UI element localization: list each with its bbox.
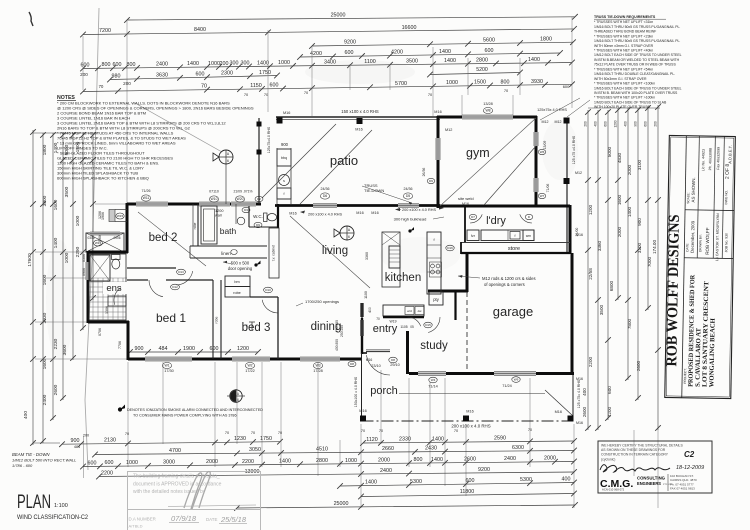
svg-text:70: 70 (225, 431, 229, 435)
faint diagonal pencil line through notes (135, 103, 222, 152)
bed3 bm robe boxes (225, 276, 250, 287)
svg-text:200 x100 x 4.0 RHS: 200 x100 x 4.0 RHS (402, 208, 436, 212)
svg-text:2200: 2200 (588, 356, 593, 367)
svg-text:2000: 2000 (544, 456, 556, 462)
wc right wall (277, 204, 279, 228)
svg-text:6: 6 (237, 398, 239, 402)
svg-text:3500: 3500 (64, 186, 70, 197)
svg-text:6: 6 (348, 235, 350, 239)
svg-text:2600: 2600 (582, 406, 587, 417)
top dimension row 7200 8400 16600 (83, 29, 574, 35)
svg-text:W.C.: W.C. (253, 214, 263, 219)
svg-text:22/58: 22/58 (588, 268, 593, 280)
svg-text:ROB WOLFF: ROB WOLFF (705, 227, 710, 255)
svg-text:The building framing details o: The building framing details of this pla… (133, 474, 220, 480)
patio left post line (258, 118, 260, 204)
svg-text:300 high bulkhead: 300 high bulkhead (394, 217, 427, 222)
svg-text:wall: wall (215, 214, 222, 218)
svg-text:M16: M16 (576, 421, 583, 425)
svg-text:70: 70 (201, 84, 207, 90)
ens window box with X (86, 233, 124, 252)
ldry door arcs (470, 214, 482, 223)
bath bed2 divider wall (197, 204, 199, 246)
svg-text:2000: 2000 (627, 164, 632, 175)
svg-text:3500: 3500 (599, 304, 604, 315)
title block divider lines (682, 136, 687, 398)
gym left wall (437, 116, 440, 208)
svg-text:11800: 11800 (460, 489, 474, 495)
svg-text:l'dry: l'dry (486, 215, 506, 227)
porch left edge (361, 353, 363, 421)
svg-text:0906: 0906 (113, 236, 120, 240)
svg-text:robe: robe (215, 316, 219, 323)
svg-text:2600: 2600 (636, 360, 641, 371)
svg-text:M16: M16 (462, 202, 469, 206)
front door oval D8 (389, 357, 397, 363)
kitchen south bench with w/d (383, 305, 424, 316)
svg-text:M16: M16 (555, 410, 562, 414)
svg-text:bed 1: bed 1 (156, 311, 186, 325)
svg-text:70: 70 (454, 429, 458, 433)
svg-text:1800: 1800 (540, 37, 552, 43)
svg-text:A.D.B.E.T.: A.D.B.E.T. (727, 145, 732, 164)
M16 post top patio mid (357, 118, 363, 124)
right dim ticks mid (585, 177, 591, 183)
oval D10 bed3 (264, 287, 273, 293)
gym right wall (535, 116, 538, 207)
svg-text:600: 600 (485, 48, 494, 54)
svg-text:* TRUSSES WITH NET UPLIFT <23k: * TRUSSES WITH NET UPLIFT <23kn (594, 34, 653, 38)
section bubble bottom (230, 390, 242, 402)
patio colonnade right line (566, 120, 568, 253)
bed2 robe strip (192, 204, 194, 246)
patio top beam 150x100 RHS (276, 116, 440, 118)
svg-text:1000: 1000 (75, 215, 81, 226)
wall ens left exterior (87, 251, 90, 323)
bottom dimension row 1b right (363, 441, 574, 443)
svg-text:70: 70 (379, 429, 383, 433)
section bubble left (219, 150, 233, 164)
svg-text:2430: 2430 (425, 446, 437, 452)
svg-text:robe: robe (233, 291, 241, 295)
top extension lines (126, 21, 128, 203)
svg-text:70: 70 (361, 429, 365, 433)
svg-text:70: 70 (251, 431, 255, 435)
svg-text:71/14: 71/14 (428, 385, 438, 389)
svg-text:(cyclonic): (cyclonic) (601, 457, 615, 461)
svg-text:W15: W15 (117, 214, 124, 218)
svg-text:6: 6 (227, 159, 229, 163)
svg-text:bm: bm (234, 280, 239, 284)
svg-text:200: 200 (80, 72, 88, 77)
svg-text:W20: W20 (237, 197, 244, 201)
entry west wall with door band (361, 318, 363, 354)
svg-text:WITH 50x3mm G.I. STRAP OVER: WITH 50x3mm G.I. STRAP OVER (594, 77, 647, 81)
porch diagonal corner (545, 390, 573, 416)
svg-text:4700: 4700 (169, 448, 181, 454)
svg-text:pty: pty (433, 297, 439, 302)
bottom dimension row 1 (62, 442, 280, 445)
svg-text:70: 70 (376, 317, 380, 321)
svg-text:1200: 1200 (588, 204, 593, 215)
entry south front door band (366, 351, 390, 353)
ldry top wall from gym to colonnade (537, 205, 570, 208)
svg-text:600: 600 (113, 62, 122, 68)
svg-text:8400: 8400 (194, 27, 206, 33)
svg-text:DWG NO.: DWG NO. (724, 190, 728, 205)
top dimension row 9200 5600 1800 (312, 42, 573, 46)
porch slab dash-dot line (362, 420, 574, 422)
top dimension row 4200 600 4200 1400 (300, 53, 560, 57)
oval D5 patio door (403, 193, 412, 199)
svg-text:t.v. cabinet: t.v. cabinet (272, 245, 276, 261)
svg-text:with the detailed notes issued: with the detailed notes issued by (133, 489, 206, 495)
svg-text:1/M16 BOLT THRU 50x5 GS TRUSS: 1/M16 BOLT THRU 50x5 GS TRUSS PL/GANGNAI… (594, 39, 680, 43)
wall bed1 left exterior (127, 321, 130, 360)
svg-text:25000: 25000 (331, 12, 346, 18)
svg-text:3360: 3360 (365, 252, 369, 260)
porch door swing arc (366, 355, 390, 375)
approval stamp gray box (128, 472, 261, 530)
svg-text:CONSULTING: CONSULTING (637, 476, 665, 481)
svg-text:THREADED THRU BOND BEAM REINF: THREADED THRU BOND BEAM REINF (594, 30, 656, 34)
svg-text:600: 600 (196, 71, 205, 77)
svg-text:9200: 9200 (478, 467, 490, 473)
svg-text:0306: 0306 (82, 254, 86, 262)
bottom dimension row 3 (83, 462, 574, 467)
svg-text:DATE: DATE (685, 243, 689, 251)
svg-text:484: 484 (74, 445, 80, 449)
wall bottom bedrooms exterior (128, 358, 361, 361)
svg-text:PLAN: PLAN (17, 491, 51, 513)
bottom extension lines (127, 362, 129, 467)
oval D13 bed2 door (177, 269, 186, 275)
svg-text:DENOTES IONIZATION SMOKE ALARM: DENOTES IONIZATION SMOKE ALARM CONNECTED… (127, 408, 263, 412)
svg-text:200 x100 x 4.0 RHS: 200 x100 x 4.0 RHS (451, 424, 490, 429)
svg-text:D7: D7 (471, 215, 475, 219)
scan crease line (85, 8, 99, 470)
svg-text:ROB WOLFF DESIGNS: ROB WOLFF DESIGNS (663, 214, 683, 366)
svg-text:13 CASTOR ST. MOURILYAN: 13 CASTOR ST. MOURILYAN (715, 213, 720, 261)
svg-text:2000: 2000 (206, 459, 218, 465)
window W10 07110 top wall (199, 202, 230, 206)
svg-text:AS SHOWN ON THESE DRAWINGS FOR: AS SHOWN ON THESE DRAWINGS FOR (601, 448, 666, 452)
svg-text:400 800: 400 800 (335, 339, 339, 351)
CMG signature (600, 465, 670, 472)
svg-text:December, 2009: December, 2009 (690, 220, 696, 253)
left dim ticks (30, 201, 36, 207)
svg-text:600: 600 (88, 460, 97, 466)
svg-text:3000: 3000 (163, 460, 175, 466)
M16 post top patio left (277, 118, 283, 124)
svg-text:125x75x 4.0 RHS: 125x75x 4.0 RHS (537, 108, 567, 112)
patio diagonal braces (262, 124, 336, 198)
svg-text:JOB No. 930: JOB No. 930 (724, 233, 728, 253)
svg-text:1000: 1000 (208, 61, 220, 67)
svg-text:porch: porch (370, 385, 398, 397)
svg-text:1600: 1600 (42, 274, 48, 285)
svg-text:17/28: 17/28 (313, 369, 323, 373)
window ens left (86, 262, 90, 280)
svg-text:13/09: 13/09 (543, 141, 547, 150)
svg-text:2800: 2800 (476, 58, 488, 64)
svg-text:FAX 07 4051 9813: FAX 07 4051 9813 (670, 487, 695, 491)
svg-text:1200: 1200 (614, 120, 618, 127)
bed3 top wall (250, 296, 278, 298)
svg-text:7800: 7800 (627, 318, 632, 329)
svg-text:dining: dining (311, 321, 342, 333)
svg-text:1600: 1600 (53, 199, 59, 210)
section bubble mid (340, 226, 354, 240)
right dim connector (588, 107, 660, 109)
svg-text:0906: 0906 (82, 268, 86, 276)
ens toilet (112, 255, 121, 260)
entry north wall (383, 316, 424, 318)
svg-text:bath: bath (220, 226, 237, 236)
svg-text:400: 400 (582, 388, 587, 396)
svg-text:1400: 1400 (187, 61, 199, 67)
svg-text:M12: M12 (555, 120, 562, 124)
svg-text:2800: 2800 (316, 458, 328, 464)
svg-text:W9: W9 (514, 378, 519, 382)
svg-text:M16: M16 (371, 211, 378, 215)
colonnade M12 squares (564, 118, 570, 124)
svg-text:D13: D13 (178, 270, 184, 274)
svg-text:entry: entry (373, 323, 398, 335)
svg-text:M16: M16 (466, 410, 473, 414)
svg-text:1400: 1400 (53, 237, 59, 248)
svg-text:gym: gym (466, 146, 490, 160)
svg-text:1400: 1400 (444, 58, 456, 64)
svg-text:patio: patio (330, 153, 358, 168)
svg-text:200: 200 (654, 121, 658, 127)
svg-text:200 x100 x 4.0 RHS: 200 x100 x 4.0 RHS (308, 213, 342, 217)
svg-text:M16: M16 (366, 358, 373, 362)
svg-text:2400: 2400 (156, 62, 168, 68)
garage left wall upper (466, 253, 469, 292)
svg-text:store: store (508, 246, 520, 252)
gym diagonal brace (484, 146, 536, 205)
svg-text:M16: M16 (355, 128, 362, 132)
ens label (103, 282, 127, 294)
svg-text:AS SHOWN.: AS SHOWN. (691, 177, 696, 202)
oval wc window (255, 196, 263, 201)
smoke alarm symbol living (408, 229, 411, 232)
svg-text:200: 200 (220, 61, 229, 67)
svg-text:1/M16 BOLT THRU 50x5 GS TRUSS: 1/M16 BOLT THRU 50x5 GS TRUSS PL/GANGNAI… (594, 25, 680, 29)
svg-text:robe: robe (193, 222, 197, 229)
svg-text:D9: D9 (429, 179, 433, 183)
linen top wall (190, 245, 267, 247)
svg-text:600: 600 (81, 62, 90, 68)
svg-text:17/22: 17/22 (245, 369, 255, 373)
scan smudges (305, 60, 415, 84)
porch M16 posts (360, 416, 366, 422)
svg-text:5600: 5600 (483, 37, 495, 43)
smoke alarm legend (118, 407, 122, 411)
svg-text:2660: 2660 (382, 446, 394, 452)
svg-text:D9: D9 (256, 223, 260, 227)
bbq circle S (279, 175, 290, 186)
svg-text:W1: W1 (164, 364, 169, 368)
svg-text:D.A NUMBER: D.A NUMBER (129, 517, 156, 522)
svg-text:1200: 1200 (215, 209, 223, 213)
svg-text:C2: C2 (684, 450, 695, 459)
svg-text:17600: 17600 (27, 253, 33, 267)
oval labels on bottom wall (162, 362, 171, 368)
svg-text:2400: 2400 (380, 468, 392, 474)
garage right wall (571, 253, 574, 374)
ens vanity (108, 296, 126, 306)
bed1 door arc (149, 280, 163, 297)
svg-text:2230: 2230 (53, 338, 59, 349)
svg-text:600: 600 (607, 386, 612, 394)
svg-text:1306: 1306 (105, 306, 109, 314)
bed3 door arc (262, 300, 278, 313)
study window W4 71/14 (418, 372, 446, 376)
svg-text:1900: 1900 (183, 346, 195, 352)
svg-text:25/5/18: 25/5/18 (220, 515, 247, 524)
svg-text:0306: 0306 (87, 236, 94, 240)
svg-text:07110: 07110 (209, 190, 219, 194)
svg-text:W3: W3 (315, 364, 320, 368)
fzr box (467, 230, 479, 241)
kitchen island bench (382, 232, 400, 287)
svg-text:17/30: 17/30 (164, 369, 174, 373)
study left wall (406, 331, 409, 374)
svg-text:linen: linen (221, 251, 231, 256)
wall ens top (88, 251, 128, 254)
svg-text:s: s (283, 179, 285, 183)
svg-text:2200: 2200 (101, 470, 113, 476)
svg-text:200: 200 (584, 121, 588, 127)
svg-text:1500: 1500 (474, 80, 486, 86)
ldry right wall (569, 205, 572, 254)
svg-text:* TRUSSES WITH NET UPLIFT <54k: * TRUSSES WITH NET UPLIFT <54kn (594, 67, 653, 71)
svg-text:1120: 1120 (366, 437, 378, 443)
garage left dashed line (466, 292, 468, 372)
hall bed1 top wall (127, 279, 148, 281)
left extension lines to plan (95, 203, 127, 205)
CMG address block (667, 474, 669, 491)
bottom dimension row 4 (99, 472, 574, 477)
svg-text:D16: D16 (447, 246, 453, 250)
porch right edge (572, 375, 574, 421)
svg-text:1400: 1400 (627, 206, 632, 217)
svg-text:M16: M16 (576, 377, 583, 381)
svg-text:2 OF 8: 2 OF 8 (725, 164, 731, 180)
svg-text:* TRUSSES WITH NET UPLIFT >100: * TRUSSES WITH NET UPLIFT >100kn (594, 96, 655, 100)
pen mark top-left corner (29, 12, 33, 26)
svg-text:M16: M16 (289, 212, 296, 216)
garage-study left wall (454, 291, 456, 320)
window 17/22 bottom wall (232, 357, 270, 361)
svg-text:W6: W6 (540, 150, 545, 154)
svg-text:D2: D2 (257, 197, 261, 201)
svg-text:1/M12 BOLT 500 INTO RECT.WALL: 1/M12 BOLT 500 INTO RECT.WALL (12, 458, 76, 463)
oval D6 patio door (320, 193, 329, 199)
ldry bench (481, 230, 534, 241)
bottom dimension row 2 (95, 451, 574, 455)
window box bed2 left wall (109, 210, 115, 222)
bottom dimension row 5 (340, 483, 574, 487)
top dimension row main string (83, 63, 572, 69)
svg-text:70: 70 (528, 428, 532, 432)
svg-text:W4: W4 (431, 378, 436, 382)
oval label entry porch (348, 361, 356, 366)
svg-text:1200: 1200 (237, 346, 249, 352)
svg-text:2400: 2400 (504, 456, 516, 462)
svg-text:2000: 2000 (378, 457, 390, 463)
bottom dimension row 6 (361, 494, 574, 497)
approval stamp bottom row (128, 509, 261, 511)
svg-text:16600: 16600 (402, 25, 417, 31)
svg-text:4510: 4510 (316, 447, 328, 453)
svg-text:WIND CLASSIFICATION-C2: WIND CLASSIFICATION-C2 (17, 515, 89, 521)
store bottom wall (461, 252, 570, 254)
sliding door 24/36 patio left (313, 204, 337, 207)
wc toilet (264, 213, 268, 222)
svg-text:1/M16 BOLT THRU DOUBLE CLEAT/G: 1/M16 BOLT THRU DOUBLE CLEAT/GANGNAIL PL… (594, 72, 675, 76)
oval D16 kitchen corner (446, 245, 454, 251)
svg-text:400: 400 (624, 121, 628, 127)
bed3 right wall (277, 297, 279, 359)
title block outer box (663, 135, 736, 398)
svg-text:* TRUSSES WITH NET UPLIFT <31k: * TRUSSES WITH NET UPLIFT <31kn (594, 20, 653, 24)
svg-text:D5: D5 (406, 194, 410, 198)
svg-text:13900: 13900 (245, 469, 260, 475)
svg-text:600: 600 (466, 478, 475, 484)
pty box (429, 292, 443, 305)
svg-text:1230: 1230 (234, 436, 246, 442)
svg-text:2000: 2000 (617, 226, 622, 237)
svg-text:1906: 1906 (101, 212, 105, 220)
bath basin (237, 217, 245, 225)
svg-text:D8: D8 (350, 362, 354, 366)
svg-text:484: 484 (159, 346, 168, 352)
approval stamp signature (184, 472, 210, 510)
linen divider (189, 246, 191, 258)
svg-text:CONSTRUCTION IN TERRAIN CATEGO: CONSTRUCTION IN TERRAIN CATEGORY (601, 453, 669, 457)
svg-text:26/36: 26/36 (422, 168, 426, 177)
svg-text:1400: 1400 (439, 49, 451, 55)
garage step wall (455, 290, 468, 293)
window 17/28 bottom wall (300, 357, 340, 361)
svg-text:1000: 1000 (446, 80, 458, 86)
svg-text:900: 900 (71, 438, 80, 444)
svg-text:5200: 5200 (476, 67, 488, 73)
svg-text:125x75x4.0 RHS: 125x75x4.0 RHS (267, 126, 271, 153)
svg-text:WONGALING BEACH: WONGALING BEACH (708, 317, 716, 387)
oval D8 linen (231, 250, 237, 255)
garage bottom wall (409, 372, 574, 375)
svg-text:TRUSS TIE-DOWN REQUIREMENTS: TRUSS TIE-DOWN REQUIREMENTS (594, 15, 656, 19)
svg-text:1105: 1105 (400, 325, 407, 329)
study top wall (428, 290, 456, 293)
svg-text:M16: M16 (283, 111, 290, 115)
svg-text:3600: 3600 (62, 344, 68, 355)
svg-text:f: f (284, 192, 285, 196)
svg-text:71/24: 71/24 (502, 384, 512, 388)
svg-text:WITH 100x20 PLATE OVER TRUSS: WITH 100x20 PLATE OVER TRUSS (594, 105, 651, 109)
gym bottom wall (437, 205, 537, 208)
svg-text:1600: 1600 (42, 358, 48, 369)
svg-text:Fax 40632099: Fax 40632099 (716, 147, 720, 170)
svg-text:BEAM TIE - DOWN: BEAM TIE - DOWN (12, 452, 50, 457)
svg-text:400: 400 (368, 307, 372, 313)
svg-text:ENGINEERS: ENGINEERS (637, 481, 661, 486)
svg-text:400: 400 (594, 121, 598, 127)
